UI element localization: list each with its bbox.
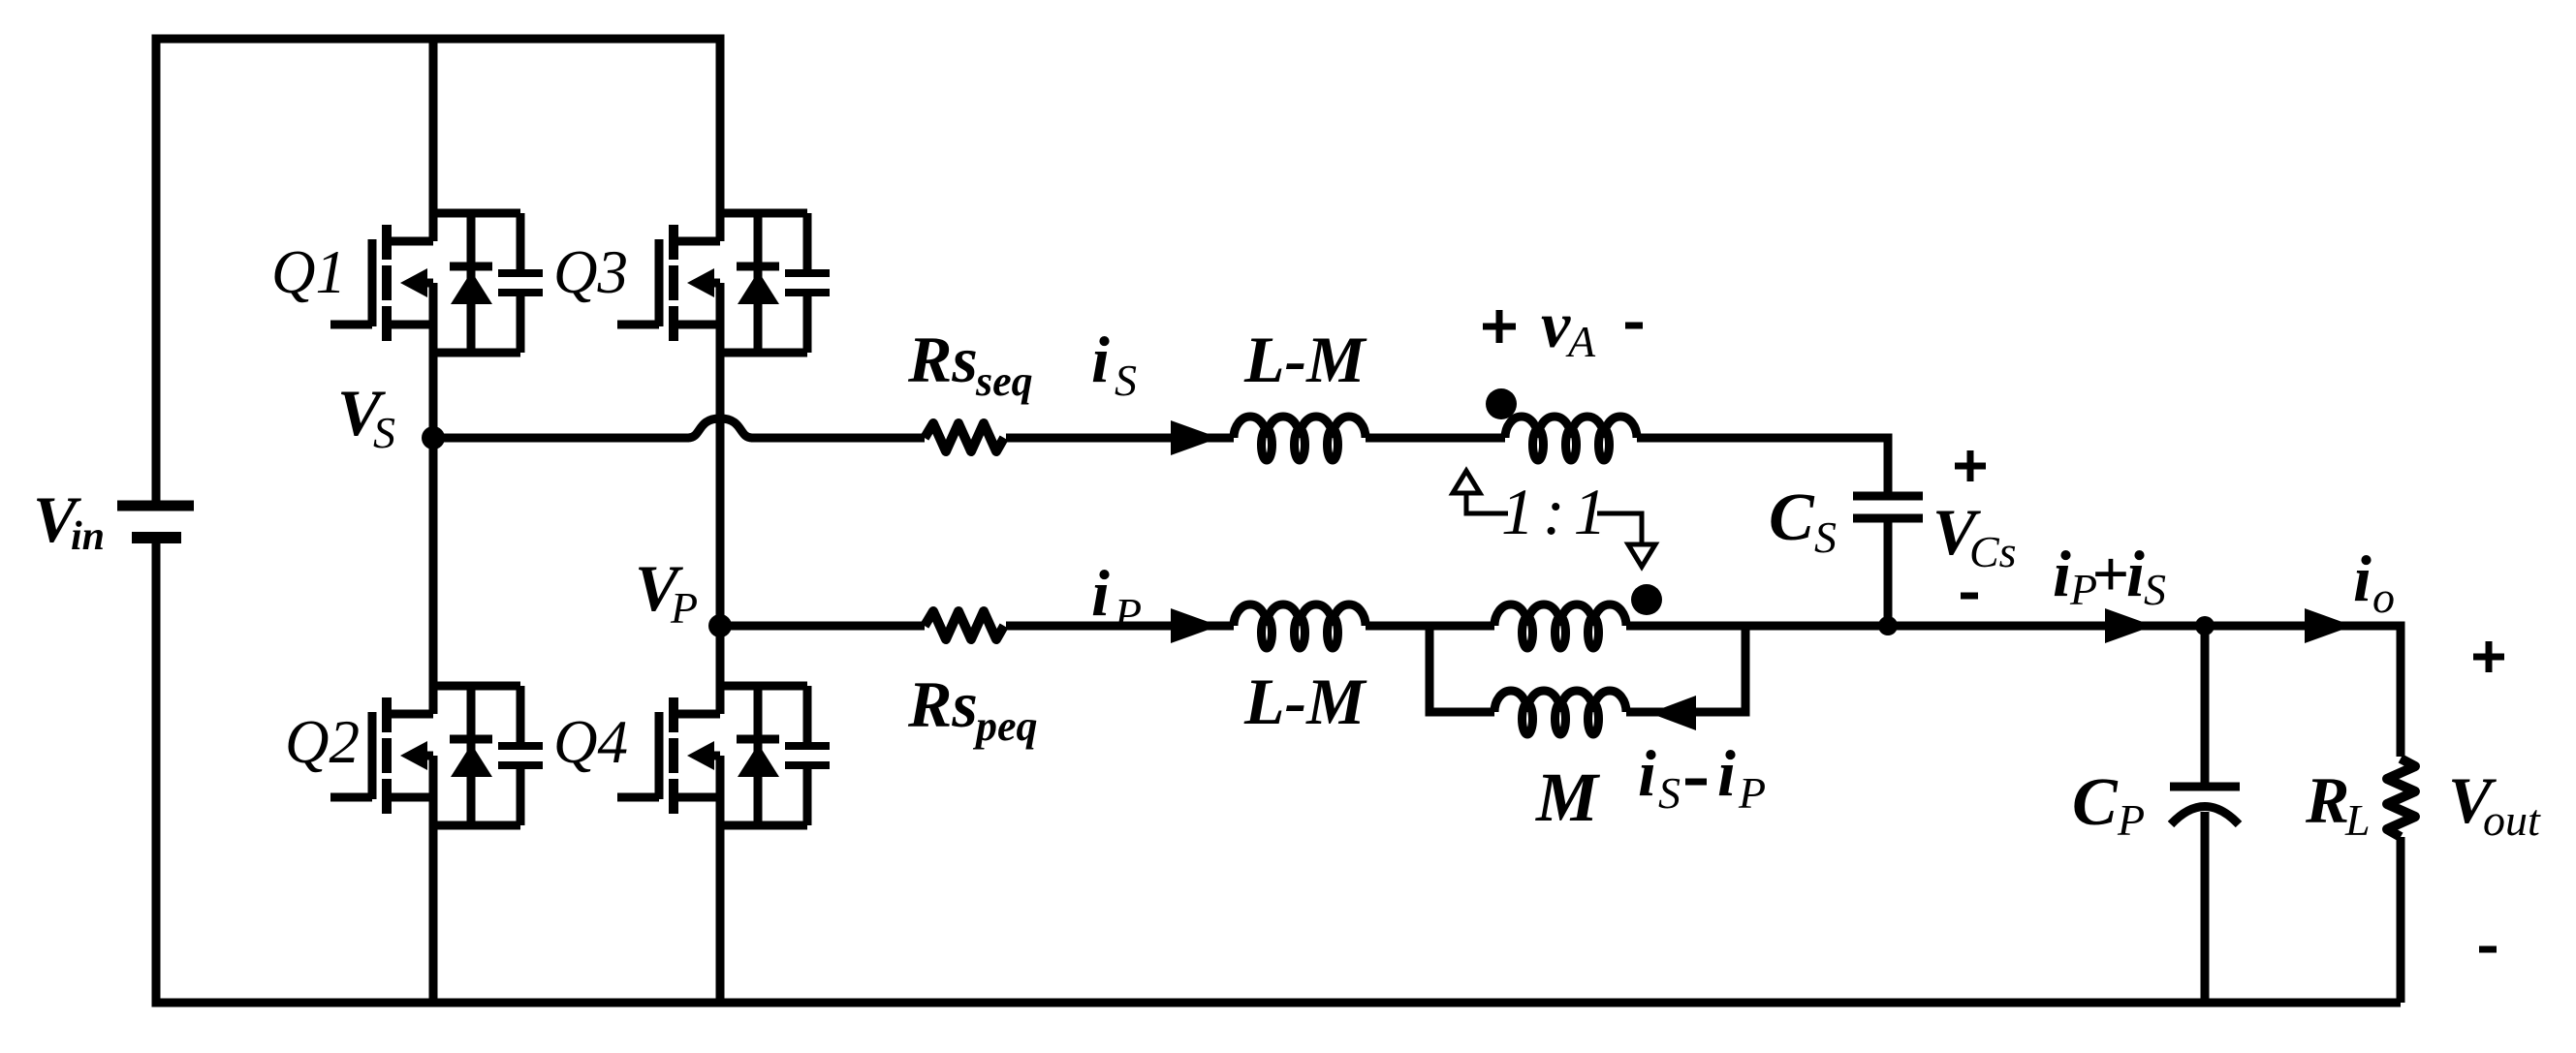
svg-text:+: +: [2091, 537, 2129, 610]
arrow iS-iP current: [1649, 696, 1696, 730]
svg-text:i: i: [1717, 736, 1736, 810]
resistor Rs_seq: [925, 423, 1004, 451]
svg-text:P: P: [670, 583, 698, 633]
arrow iP current: [1171, 608, 1219, 643]
label vA minus: [1625, 323, 1643, 329]
svg-text:R: R: [2305, 763, 2349, 837]
label VCs: [1932, 495, 2017, 576]
label iS: [1091, 323, 1137, 405]
label iS-iP minus: [1685, 779, 1707, 786]
capacitor CP curved plate: [2171, 807, 2239, 825]
inductor L-M (top): [1234, 417, 1366, 460]
node CP junction dot: [2195, 616, 2215, 635]
inductor L-M (bottom): [1234, 604, 1366, 648]
label iP+iS: [2053, 537, 2166, 614]
node VP dot: [708, 614, 732, 637]
svg-text:seq: seq: [975, 357, 1033, 405]
label VS: [337, 376, 395, 457]
pointer 1:1 left hook: [1466, 493, 1508, 513]
svg-text:i: i: [1091, 323, 1110, 396]
label Rs_peq: [907, 667, 1038, 750]
label vA: [1541, 288, 1596, 366]
wire winding to CS corner (top): [1637, 438, 1888, 496]
svg-text:A: A: [1565, 317, 1596, 366]
capacitor CP bottom lead: [2201, 812, 2210, 1003]
wire winding to output corner: [1626, 626, 2401, 757]
label Vout minus: [2479, 946, 2497, 953]
label Vout plus: [2473, 641, 2504, 672]
svg-text:v: v: [1541, 288, 1571, 361]
wire Q1 drain leg: [429, 39, 438, 241]
svg-text:S: S: [1115, 356, 1137, 405]
svg-text:L-M: L-M: [1243, 665, 1367, 738]
transformer secondary winding: [1505, 417, 1637, 460]
wire outer: left rail upper + top rail + Q3 drain leg: [156, 39, 720, 501]
wire crossover hop over Q3 leg: [688, 418, 752, 438]
pointer 1:1 right hook: [1597, 513, 1642, 543]
label io: [2353, 542, 2395, 622]
svg-text:P: P: [2117, 795, 2145, 845]
svg-text:Q4: Q4: [553, 708, 628, 776]
wire hop to resistor: [751, 434, 925, 443]
svg-text:S: S: [2144, 565, 2166, 614]
svg-text:Rs: Rs: [907, 667, 978, 741]
node CS junction dot: [1878, 616, 1898, 635]
svg-text:P: P: [1738, 768, 1766, 818]
label iS-iP: [1638, 736, 1766, 818]
svg-text:S: S: [1814, 512, 1837, 562]
wire left rail lower + bottom rail: [156, 542, 2401, 1003]
arrow iP+iS current: [2105, 608, 2153, 643]
label VCs plus: [1955, 450, 1986, 481]
svg-text:L-M: L-M: [1243, 323, 1367, 396]
wire RL bottom lead: [2397, 837, 2405, 1003]
wire CS lower lead: [1884, 518, 1893, 626]
wire Q1-Q2 middle leg: [429, 283, 438, 714]
label CP: [2072, 765, 2145, 845]
svg-text:i: i: [2053, 537, 2071, 610]
transistor Q3: [617, 213, 830, 353]
svg-text:o: o: [2372, 573, 2395, 622]
svg-text:Cs: Cs: [1969, 527, 2017, 576]
inductor M: [1494, 691, 1626, 734]
capacitor CS plates: [1853, 496, 1923, 518]
transformer primary polarity dot: [1631, 584, 1662, 615]
wire Q4 source leg: [716, 825, 725, 1003]
wire M branch left leg: [1429, 626, 1494, 712]
resistor Rs_peq: [925, 611, 1004, 639]
svg-text:i: i: [1638, 736, 1656, 810]
transistor Q2: [330, 686, 543, 825]
svg-text:S: S: [373, 408, 395, 457]
svg-text:M: M: [1535, 759, 1601, 836]
node VS dot: [422, 426, 445, 449]
svg-text:L: L: [2344, 795, 2371, 845]
svg-text:Q3: Q3: [553, 238, 628, 306]
transformer secondary polarity dot: [1486, 388, 1517, 419]
transistor Q1: [330, 213, 543, 353]
battery Vin long plate: [117, 501, 194, 511]
label + vA - plus: [1483, 310, 1516, 343]
wire M branch right: [1626, 626, 1745, 712]
arrow io current: [2305, 608, 2353, 643]
wire Q2 source leg: [429, 825, 438, 1003]
svg-text:i: i: [2126, 537, 2145, 610]
svg-text:i: i: [2353, 542, 2372, 615]
label Vout: [2448, 763, 2541, 845]
svg-text:i: i: [1091, 556, 1110, 630]
wire resistor to inductor (bottom): [1006, 622, 1234, 631]
label VCs minus: [1961, 593, 1978, 600]
wire VS to crossover: [433, 434, 689, 443]
wire inductor to winding (top): [1366, 434, 1505, 443]
svg-text:in: in: [71, 514, 105, 559]
svg-text:Q2: Q2: [285, 708, 360, 776]
capacitor CP top lead: [2201, 626, 2210, 787]
pointer 1:1 up arrow: [1453, 471, 1480, 493]
label Rs_seq: [907, 323, 1033, 405]
transformer primary winding: [1494, 604, 1626, 648]
svg-text:P: P: [1114, 589, 1142, 638]
wire VP to resistor (bottom): [720, 622, 925, 631]
label Vin: [33, 482, 105, 559]
svg-text:C: C: [2072, 765, 2119, 840]
svg-text:Rs: Rs: [907, 323, 978, 396]
pointer 1:1 down arrow: [1628, 544, 1655, 567]
svg-text:S: S: [1658, 768, 1681, 818]
transistor Q4: [617, 686, 830, 825]
wire Q3-Q4 middle leg: [716, 283, 725, 714]
label CS: [1769, 480, 1837, 562]
label iP: [1091, 556, 1142, 638]
wire inductor to winding (bottom): [1366, 622, 1494, 631]
resistor RL zigzag: [2387, 759, 2415, 837]
svg-text:peq: peq: [972, 702, 1038, 750]
svg-text:out: out: [2483, 795, 2541, 845]
label RL: [2305, 763, 2371, 845]
capacitor CP top plate: [2170, 783, 2240, 791]
arrow iS current: [1171, 420, 1219, 455]
battery Vin short plate: [132, 532, 181, 543]
wire resistor to inductor (top): [1006, 434, 1234, 443]
svg-text:Q1: Q1: [271, 238, 346, 306]
svg-text:C: C: [1769, 480, 1815, 555]
label VP: [635, 551, 698, 633]
